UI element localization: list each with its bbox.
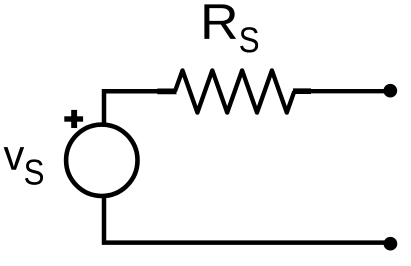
wire: top rail right segment to open terminal <box>310 89 388 93</box>
polarity plus sign <box>64 110 83 128</box>
voltage source vS circle <box>66 125 137 196</box>
label vS <box>4 147 43 185</box>
label RS <box>204 4 258 52</box>
node: top open terminal dot <box>383 84 397 98</box>
wire: resistor right pin stub <box>293 88 311 94</box>
resistor RS zigzag body <box>175 70 294 112</box>
wire: source top lead + top rail left segment <box>104 91 176 125</box>
wire: source bottom lead + bottom rail <box>104 196 388 243</box>
node: bottom open terminal dot <box>384 237 398 251</box>
wire: resistor left pin stub <box>157 89 176 95</box>
